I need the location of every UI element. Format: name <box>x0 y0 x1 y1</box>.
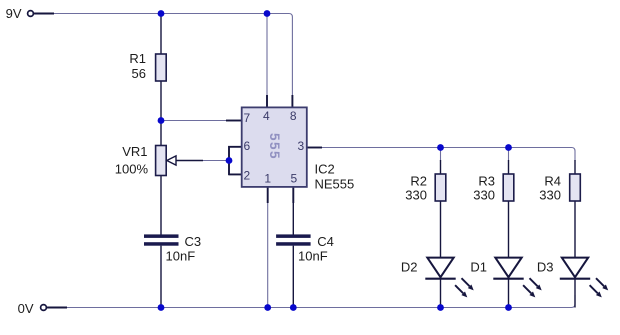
svg-text:C3: C3 <box>185 234 202 249</box>
svg-text:IC2: IC2 <box>315 161 335 176</box>
svg-text:8: 8 <box>290 109 297 123</box>
svg-text:9V: 9V <box>6 6 22 21</box>
svg-text:1: 1 <box>264 171 271 185</box>
svg-text:C4: C4 <box>317 234 334 249</box>
svg-text:0V: 0V <box>18 301 34 316</box>
svg-text:VR1: VR1 <box>122 144 147 159</box>
svg-text:D1: D1 <box>470 259 487 274</box>
svg-text:R3: R3 <box>478 173 495 188</box>
svg-text:2: 2 <box>243 169 250 183</box>
svg-text:D3: D3 <box>537 259 554 274</box>
svg-text:7: 7 <box>243 111 250 125</box>
svg-text:100%: 100% <box>115 161 149 176</box>
svg-text:4: 4 <box>263 109 270 123</box>
svg-text:R2: R2 <box>410 173 427 188</box>
svg-text:6: 6 <box>243 139 250 153</box>
svg-text:NE555: NE555 <box>315 177 355 192</box>
svg-text:56: 56 <box>132 66 146 81</box>
svg-text:R4: R4 <box>544 173 561 188</box>
svg-text:10nF: 10nF <box>166 248 196 263</box>
svg-text:3: 3 <box>297 139 304 153</box>
svg-text:330: 330 <box>539 188 561 203</box>
svg-text:330: 330 <box>473 188 495 203</box>
svg-text:D2: D2 <box>401 259 418 274</box>
svg-text:5: 5 <box>290 171 297 185</box>
svg-text:R1: R1 <box>129 51 146 66</box>
svg-text:10nF: 10nF <box>298 248 328 263</box>
svg-text:330: 330 <box>405 188 427 203</box>
svg-text:555: 555 <box>267 133 282 160</box>
